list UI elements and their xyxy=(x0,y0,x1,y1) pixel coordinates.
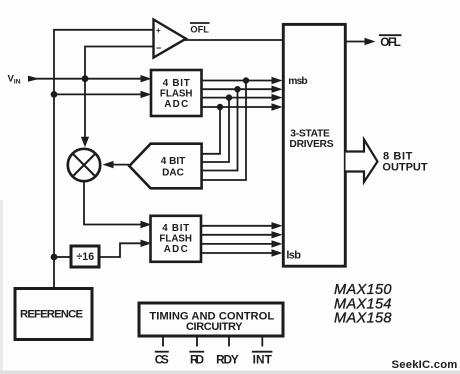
svg-text:DAC: DAC xyxy=(162,167,184,178)
svg-text:SeekIC.com: SeekIC.com xyxy=(392,359,458,371)
svg-text:÷16: ÷16 xyxy=(76,251,94,263)
svg-text:DRIVERS: DRIVERS xyxy=(289,139,333,150)
svg-text:−: − xyxy=(156,43,161,53)
svg-text:ADC: ADC xyxy=(164,244,188,255)
svg-text:RDY: RDY xyxy=(216,352,239,366)
svg-text:RD: RD xyxy=(190,352,204,366)
svg-text:CS: CS xyxy=(155,352,169,366)
svg-text:ADC: ADC xyxy=(164,99,188,110)
svg-text:+: + xyxy=(156,26,161,35)
svg-text:OUTPUT: OUTPUT xyxy=(382,162,427,174)
svg-text:MAX158: MAX158 xyxy=(334,310,392,326)
svg-text:IN: IN xyxy=(14,78,21,85)
svg-text:REFERENCE: REFERENCE xyxy=(20,308,83,320)
svg-text:INT: INT xyxy=(253,352,273,366)
svg-text:CIRCUITRY: CIRCUITRY xyxy=(186,321,243,333)
svg-text:OFL: OFL xyxy=(380,35,401,49)
svg-text:lsb: lsb xyxy=(286,249,301,261)
svg-text:3-STATE: 3-STATE xyxy=(290,129,330,140)
svg-text:OFL: OFL xyxy=(190,25,209,35)
svg-text:msb: msb xyxy=(288,76,307,87)
svg-text:4 BIT: 4 BIT xyxy=(161,156,185,167)
